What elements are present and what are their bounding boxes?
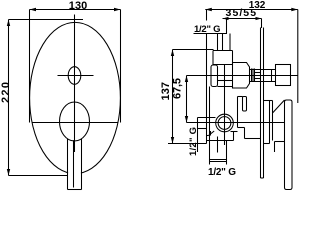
top port pipe [218,34,231,51]
threads [252,69,255,83]
dimension 220 left [7,20,10,176]
big ellipse crosshair horizontal [32,122,118,124]
dimension 130 top [30,8,121,11]
chamfer under circle [209,131,215,136]
right side lines [231,97,261,141]
svg-text:1/2" G: 1/2" G [208,167,236,178]
bottom bracket [210,159,227,165]
left port leader [197,118,199,153]
dimension 137 [171,50,174,144]
svg-text:67,5: 67,5 [171,78,183,99]
extension bottom of 137 [168,143,207,145]
extension line bottom of 220 [9,175,68,177]
top fitting [213,51,233,65]
left port top [198,117,216,119]
lever neck diagonal [273,100,285,113]
oval escutcheon plate (front view) [30,22,121,173]
svg-text:137: 137 [160,82,172,101]
extension line left of 35/55 [226,19,228,34]
extension line left of 130 [29,10,31,123]
outlet pipe [250,70,276,82]
dimension 35/55 [223,17,262,20]
circle vertical centerline [224,65,226,146]
mounting tab [243,97,247,112]
outlet block [276,65,291,86]
cartridge cap circle [216,114,234,132]
wall plate (edge view) [261,28,264,179]
body bottom [207,140,234,142]
left stub lines [198,129,211,136]
extension top of 137 [173,49,214,51]
step under hub [275,142,285,153]
body left edge [209,87,211,141]
extension line top of 220 [9,19,84,21]
svg-text:130: 130 [69,0,88,12]
small ellipse (outlet boss) [68,67,81,85]
svg-text:220: 220 [0,82,12,103]
big ellipse (handle boss) [60,102,90,141]
vertical centerline [74,15,76,153]
extension line right of 35/55 [261,19,263,29]
small ellipse crosshair horizontal [58,75,94,77]
lever blade [285,100,293,190]
label underline / port top [194,33,228,35]
nut face [271,70,273,82]
svg-text:35/55: 35/55 [226,7,257,19]
handle lever (front view) [68,139,82,190]
handle cap [264,101,273,144]
rear vertical line / left extension of 132 [206,10,208,21]
extension line right of 132 [297,10,299,104]
cartridge axis [187,122,286,124]
outlet centerline [187,75,298,77]
bottom inlet pipe [210,137,227,160]
dimension 67,5 [185,76,188,123]
cartridge barrel [211,63,250,89]
dimension 132 [205,8,297,11]
extension line right of 130 [120,10,122,123]
